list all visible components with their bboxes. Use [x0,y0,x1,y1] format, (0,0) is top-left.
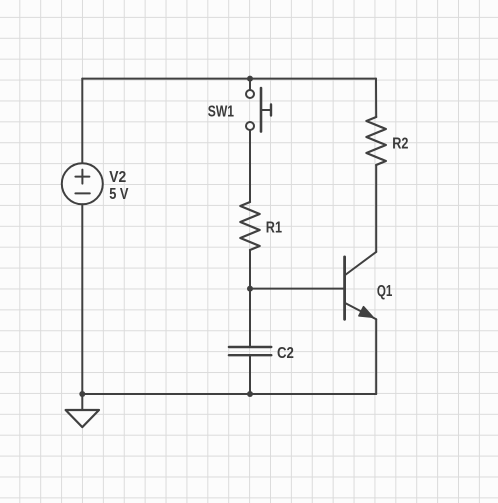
wire left vertical lower [81,204,83,394]
wire collector vertical [375,165,377,252]
wire junction to C2 [249,289,251,347]
wire top-right horizontal [250,78,376,80]
ground [66,394,99,427]
svg-text:SW1: SW1 [208,103,234,120]
wire emitter vertical [375,319,377,394]
svg-text:5 V: 5 V [109,186,129,203]
node junction C2 bottom [247,391,253,397]
switch SW1 [246,79,271,132]
svg-text:Q1: Q1 [377,283,393,300]
wire left vertical upper [81,79,83,164]
wire top to R2 [375,79,377,117]
svg-text:C2: C2 [277,345,294,362]
resistor R2 [366,117,386,165]
wire switch to R1 [249,130,251,202]
transistor Q1 [345,252,377,319]
node junction base [247,286,253,292]
svg-text:R2: R2 [392,135,408,152]
wire bottom horizontal [82,393,376,395]
voltage source V2 [62,163,103,204]
resistor R1 [240,202,259,250]
wire top-left horizontal [82,78,250,80]
svg-text:V2: V2 [109,169,126,186]
wire C2 to bottom [249,355,251,394]
svg-text:R1: R1 [266,219,282,236]
wire base horizontal [250,288,344,290]
capacitor C2 [229,347,271,355]
node junction ground [79,391,85,397]
wire R1 to junction [249,250,251,289]
node junction top [247,76,253,82]
